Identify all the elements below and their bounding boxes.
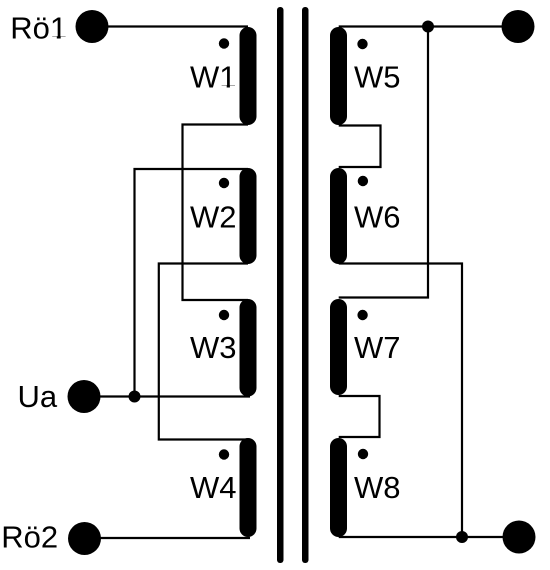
wire W8 bottom to bottom-right terminal [339, 536, 519, 538]
polarity dot W1 [219, 38, 229, 48]
wire Rö1 to W1 top [92, 25, 248, 27]
polarity dot W8 [358, 449, 368, 459]
core line right [302, 7, 309, 563]
wire W6 bottom to bottom-right junction [339, 264, 462, 538]
winding W1 [240, 27, 257, 125]
wire W2 bottom to W4 top [159, 264, 248, 440]
winding W8 [330, 438, 347, 537]
svg-text:Ua: Ua [18, 379, 58, 414]
winding W3 [240, 299, 257, 397]
wire Ua to W3 bottom [84, 395, 250, 397]
wire W1 bottom to W3 top [183, 125, 249, 301]
winding W2 [240, 168, 257, 264]
wire top-right junction to W7 top [339, 27, 428, 298]
junction node on top-right wire [422, 21, 434, 33]
junction node on Ua wire [129, 391, 141, 403]
polarity dot W4 [219, 449, 229, 459]
winding W7 [330, 299, 347, 395]
svg-text:Rö2: Rö2 [1, 519, 58, 554]
svg-text:W6: W6 [354, 200, 401, 235]
winding W5 [330, 27, 347, 125]
winding W4 [240, 438, 257, 537]
svg-text:W3: W3 [190, 330, 237, 365]
terminal Rö1 [76, 10, 109, 43]
svg-text:W7: W7 [354, 330, 401, 365]
label W1 [190, 60, 237, 95]
polarity dot W2 [219, 178, 229, 188]
terminal Rö2 [68, 522, 101, 555]
winding W6 [330, 168, 347, 264]
svg-text:W2: W2 [190, 200, 237, 235]
wire W5 bottom to W6 top [339, 126, 381, 168]
terminal Ua [68, 380, 101, 413]
polarity dot W6 [358, 176, 368, 186]
wire W5 top to top-right terminal [339, 25, 518, 27]
svg-text:Rö1: Rö1 [10, 11, 67, 46]
wire Rö2 to W4 bottom [85, 537, 251, 539]
wire W7 bottom to W8 top [339, 396, 380, 437]
polarity dot W5 [357, 39, 367, 49]
svg-text:W5: W5 [354, 60, 401, 95]
polarity dot W3 [219, 310, 229, 320]
terminal top right [502, 10, 535, 43]
svg-text:W8: W8 [354, 470, 401, 505]
terminal bottom right [503, 521, 536, 554]
label Rö1 [10, 11, 67, 46]
polarity dot W7 [357, 310, 367, 320]
wire W2 top to Ua junction [135, 169, 249, 397]
core line left [277, 7, 284, 563]
svg-text:W1: W1 [190, 60, 237, 95]
svg-text:W4: W4 [190, 470, 237, 505]
junction node on bottom-right wire [456, 531, 468, 543]
